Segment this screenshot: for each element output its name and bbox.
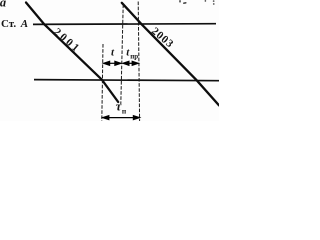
arrow t_pr interval	[123, 61, 139, 65]
dashed line 3	[138, 2, 139, 122]
svg-text:п: п	[122, 106, 127, 115]
station line top	[33, 23, 216, 26]
station line bottom	[34, 80, 219, 81]
svg-text:Ст.: Ст.	[1, 18, 16, 30]
svg-text:а: а	[0, 0, 6, 10]
dashed line 2 (2003 departs)	[121, 5, 123, 105]
svg-text:А: А	[20, 18, 28, 30]
svg-text:пр: пр	[130, 53, 138, 61]
arrow t interval	[103, 61, 121, 65]
arrow tau_p interval	[102, 116, 139, 120]
scan artifacts top right	[179, 0, 214, 5]
train path 2003	[122, 3, 219, 106]
train path 2001	[26, 3, 118, 103]
dashed line 1 (2001 passes axis)	[102, 44, 103, 121]
